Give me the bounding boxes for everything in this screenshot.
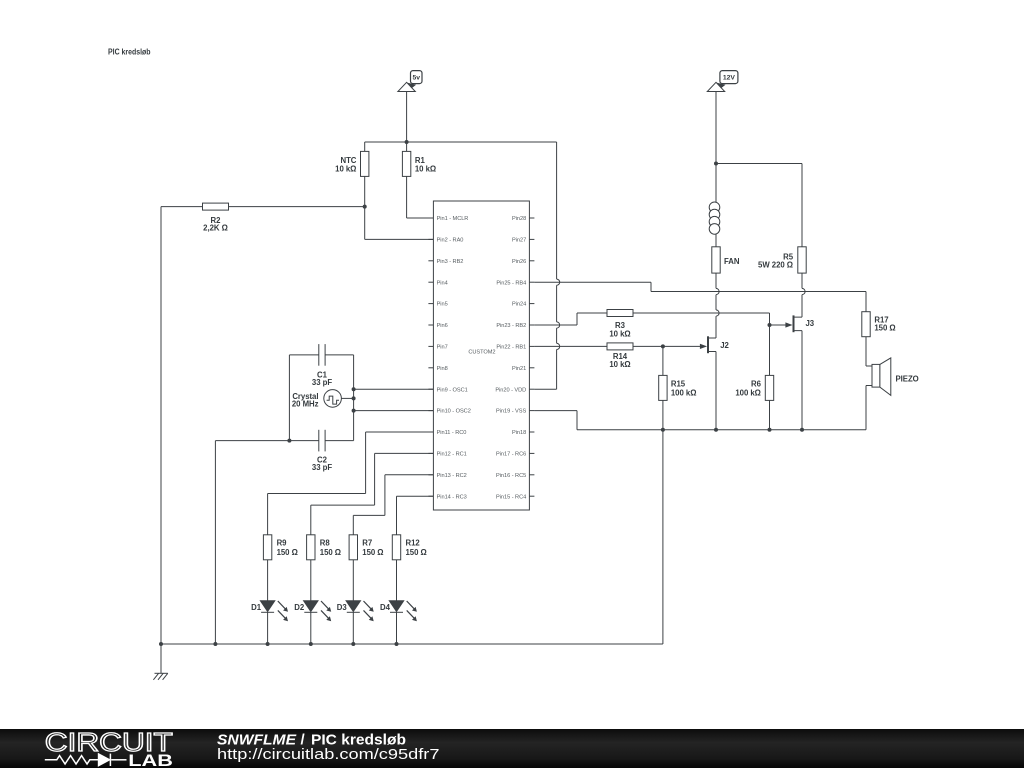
svg-text:Pin13 - RC2: Pin13 - RC2 <box>437 473 467 479</box>
svg-text:150 Ω: 150 Ω <box>406 548 427 557</box>
svg-text:Pin16 - RC5: Pin16 - RC5 <box>496 473 526 479</box>
svg-text:http://circuitlab.com/c95dfr7: http://circuitlab.com/c95dfr7 <box>217 746 440 763</box>
svg-text:33 pF: 33 pF <box>312 378 332 387</box>
svg-text:Pin10 - OSC2: Pin10 - OSC2 <box>437 409 471 415</box>
svg-text:Pin18: Pin18 <box>512 430 526 436</box>
svg-text:100 kΩ: 100 kΩ <box>735 388 761 397</box>
svg-text:10 kΩ: 10 kΩ <box>609 329 630 338</box>
svg-text:Pin22 - RB1: Pin22 - RB1 <box>496 345 526 351</box>
svg-text:PIC kredsløb: PIC kredsløb <box>108 48 151 57</box>
svg-text:10 kΩ: 10 kΩ <box>609 360 630 369</box>
svg-text:Pin11 - RC0: Pin11 - RC0 <box>437 430 467 436</box>
svg-text:D1: D1 <box>251 603 262 612</box>
svg-text:Pin7: Pin7 <box>437 345 448 351</box>
svg-text:2,2K Ω: 2,2K Ω <box>203 223 228 232</box>
svg-text:Pin21: Pin21 <box>512 366 526 372</box>
svg-text:Pin3 - RB2: Pin3 - RB2 <box>437 259 464 265</box>
svg-text:Pin25 - RB4: Pin25 - RB4 <box>496 280 526 286</box>
svg-text:150 Ω: 150 Ω <box>874 323 895 332</box>
svg-text:R15: R15 <box>671 379 686 388</box>
svg-text:D3: D3 <box>337 603 348 612</box>
svg-text:FAN: FAN <box>724 257 740 266</box>
svg-text:J3: J3 <box>806 319 815 328</box>
svg-text:PIEZO: PIEZO <box>896 374 919 383</box>
svg-text:R6: R6 <box>751 379 762 388</box>
svg-text:Pin19 - VSS: Pin19 - VSS <box>496 409 526 415</box>
svg-text:Pin23 - RB2: Pin23 - RB2 <box>496 323 526 329</box>
svg-text:Pin4: Pin4 <box>437 280 448 286</box>
svg-text:Pin8: Pin8 <box>437 366 448 372</box>
svg-text:R7: R7 <box>362 538 372 547</box>
svg-text:10 kΩ: 10 kΩ <box>335 164 356 173</box>
svg-text:10 kΩ: 10 kΩ <box>415 164 436 173</box>
svg-text:R12: R12 <box>406 538 421 547</box>
svg-text:Pin1 - MCLR: Pin1 - MCLR <box>437 216 469 222</box>
svg-text:R8: R8 <box>320 538 331 547</box>
svg-text:Pin27: Pin27 <box>512 238 526 244</box>
svg-text:CUSTOM2: CUSTOM2 <box>468 350 495 356</box>
svg-text:Pin5: Pin5 <box>437 302 448 308</box>
svg-text:5W 220 Ω: 5W 220 Ω <box>758 261 793 270</box>
svg-text:R9: R9 <box>277 538 288 547</box>
svg-text:LAB: LAB <box>128 751 173 768</box>
svg-text:Pin9 - OSC1: Pin9 - OSC1 <box>437 387 468 393</box>
svg-text:Pin24: Pin24 <box>512 302 526 308</box>
svg-text:12V: 12V <box>723 75 736 82</box>
svg-text:150 Ω: 150 Ω <box>362 548 383 557</box>
svg-text:150 Ω: 150 Ω <box>277 548 298 557</box>
svg-text:D2: D2 <box>294 603 305 612</box>
svg-text:Pin20 - VDD: Pin20 - VDD <box>495 387 526 393</box>
svg-text:D4: D4 <box>380 603 391 612</box>
svg-text:J2: J2 <box>720 341 729 350</box>
svg-text:Pin26: Pin26 <box>512 259 526 265</box>
svg-text:150 Ω: 150 Ω <box>320 548 341 557</box>
svg-text:Pin2 - RA0: Pin2 - RA0 <box>437 238 464 244</box>
svg-text:Pin6: Pin6 <box>437 323 448 329</box>
svg-text:100 kΩ: 100 kΩ <box>671 388 697 397</box>
svg-text:20 MHz: 20 MHz <box>292 400 319 409</box>
svg-text:Pin15 - RC4: Pin15 - RC4 <box>496 494 526 500</box>
svg-text:Pin17 - RC6: Pin17 - RC6 <box>496 452 526 458</box>
svg-text:Pin14 - RC3: Pin14 - RC3 <box>437 494 467 500</box>
svg-text:Pin12 - RC1: Pin12 - RC1 <box>437 452 467 458</box>
svg-text:Pin28: Pin28 <box>512 216 526 222</box>
svg-text:33 pF: 33 pF <box>312 463 332 472</box>
svg-text:5v: 5v <box>412 75 420 82</box>
